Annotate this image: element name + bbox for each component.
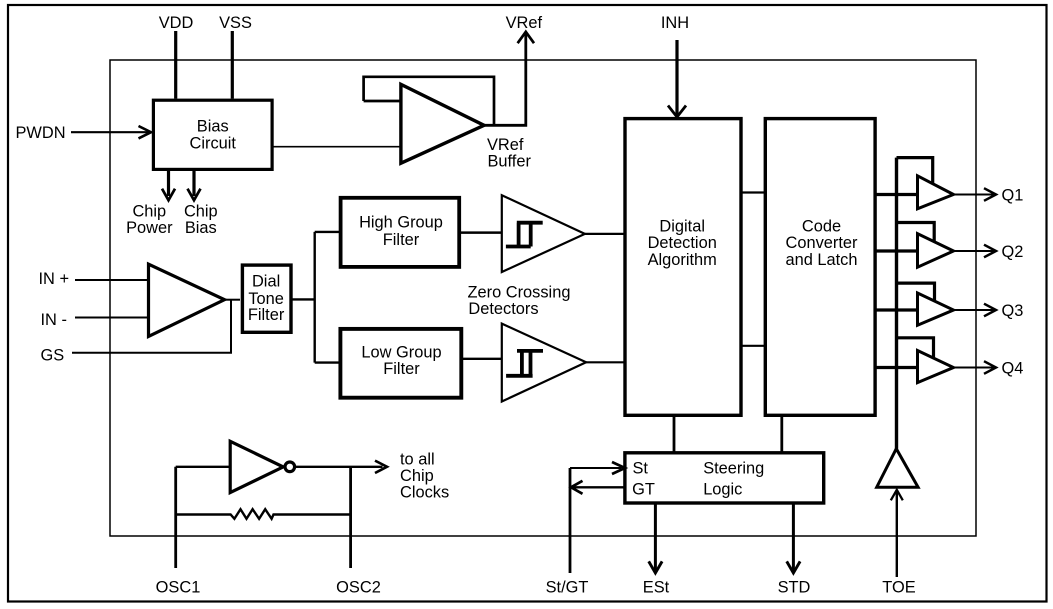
svg-text:Chip: Chip — [184, 202, 218, 220]
svg-text:OSC2: OSC2 — [336, 579, 381, 597]
svg-text:IN +: IN + — [39, 270, 70, 288]
svg-text:Chip: Chip — [400, 467, 434, 485]
svg-text:Algorithm: Algorithm — [648, 251, 717, 269]
svg-text:Filter: Filter — [248, 306, 285, 324]
svg-text:Q1: Q1 — [1002, 187, 1024, 205]
svg-text:IN -: IN - — [41, 311, 67, 329]
svg-text:Digital: Digital — [659, 218, 705, 236]
svg-text:GT: GT — [632, 480, 655, 498]
svg-text:to all: to all — [400, 451, 435, 469]
svg-text:VSS: VSS — [219, 14, 252, 32]
svg-text:Bias: Bias — [197, 117, 229, 135]
svg-text:Filter: Filter — [383, 360, 420, 378]
svg-text:Dial: Dial — [252, 273, 280, 291]
svg-text:INH: INH — [661, 14, 689, 32]
svg-text:Filter: Filter — [383, 231, 420, 249]
svg-text:Zero Crossing: Zero Crossing — [468, 284, 571, 302]
svg-text:Detection: Detection — [648, 234, 717, 252]
svg-text:St: St — [633, 459, 649, 477]
svg-text:Circuit: Circuit — [190, 135, 237, 153]
svg-text:VRef: VRef — [487, 136, 524, 154]
svg-text:Code: Code — [802, 218, 841, 236]
svg-text:Steering: Steering — [703, 459, 764, 477]
svg-text:Clocks: Clocks — [400, 484, 449, 502]
svg-text:Q2: Q2 — [1002, 243, 1024, 261]
svg-text:Low Group: Low Group — [361, 344, 441, 362]
svg-text:VDD: VDD — [159, 14, 194, 32]
svg-text:Bias: Bias — [185, 219, 217, 237]
svg-text:and Latch: and Latch — [786, 251, 858, 269]
svg-text:Chip: Chip — [132, 202, 166, 220]
svg-text:VRef: VRef — [506, 14, 543, 32]
svg-text:Buffer: Buffer — [488, 153, 532, 171]
svg-text:TOE: TOE — [882, 579, 915, 597]
svg-text:St/GT: St/GT — [546, 579, 589, 597]
svg-text:STD: STD — [778, 579, 811, 597]
svg-text:Converter: Converter — [786, 234, 859, 252]
svg-text:Power: Power — [126, 219, 173, 237]
svg-text:Q4: Q4 — [1002, 360, 1024, 378]
svg-text:OSC1: OSC1 — [156, 579, 201, 597]
svg-text:ESt: ESt — [643, 579, 670, 597]
svg-text:High Group: High Group — [359, 213, 443, 231]
svg-text:PWDN: PWDN — [16, 124, 66, 142]
svg-text:Q3: Q3 — [1002, 302, 1024, 320]
svg-text:Logic: Logic — [703, 480, 742, 498]
svg-text:Detectors: Detectors — [468, 300, 538, 318]
svg-text:GS: GS — [41, 347, 65, 365]
